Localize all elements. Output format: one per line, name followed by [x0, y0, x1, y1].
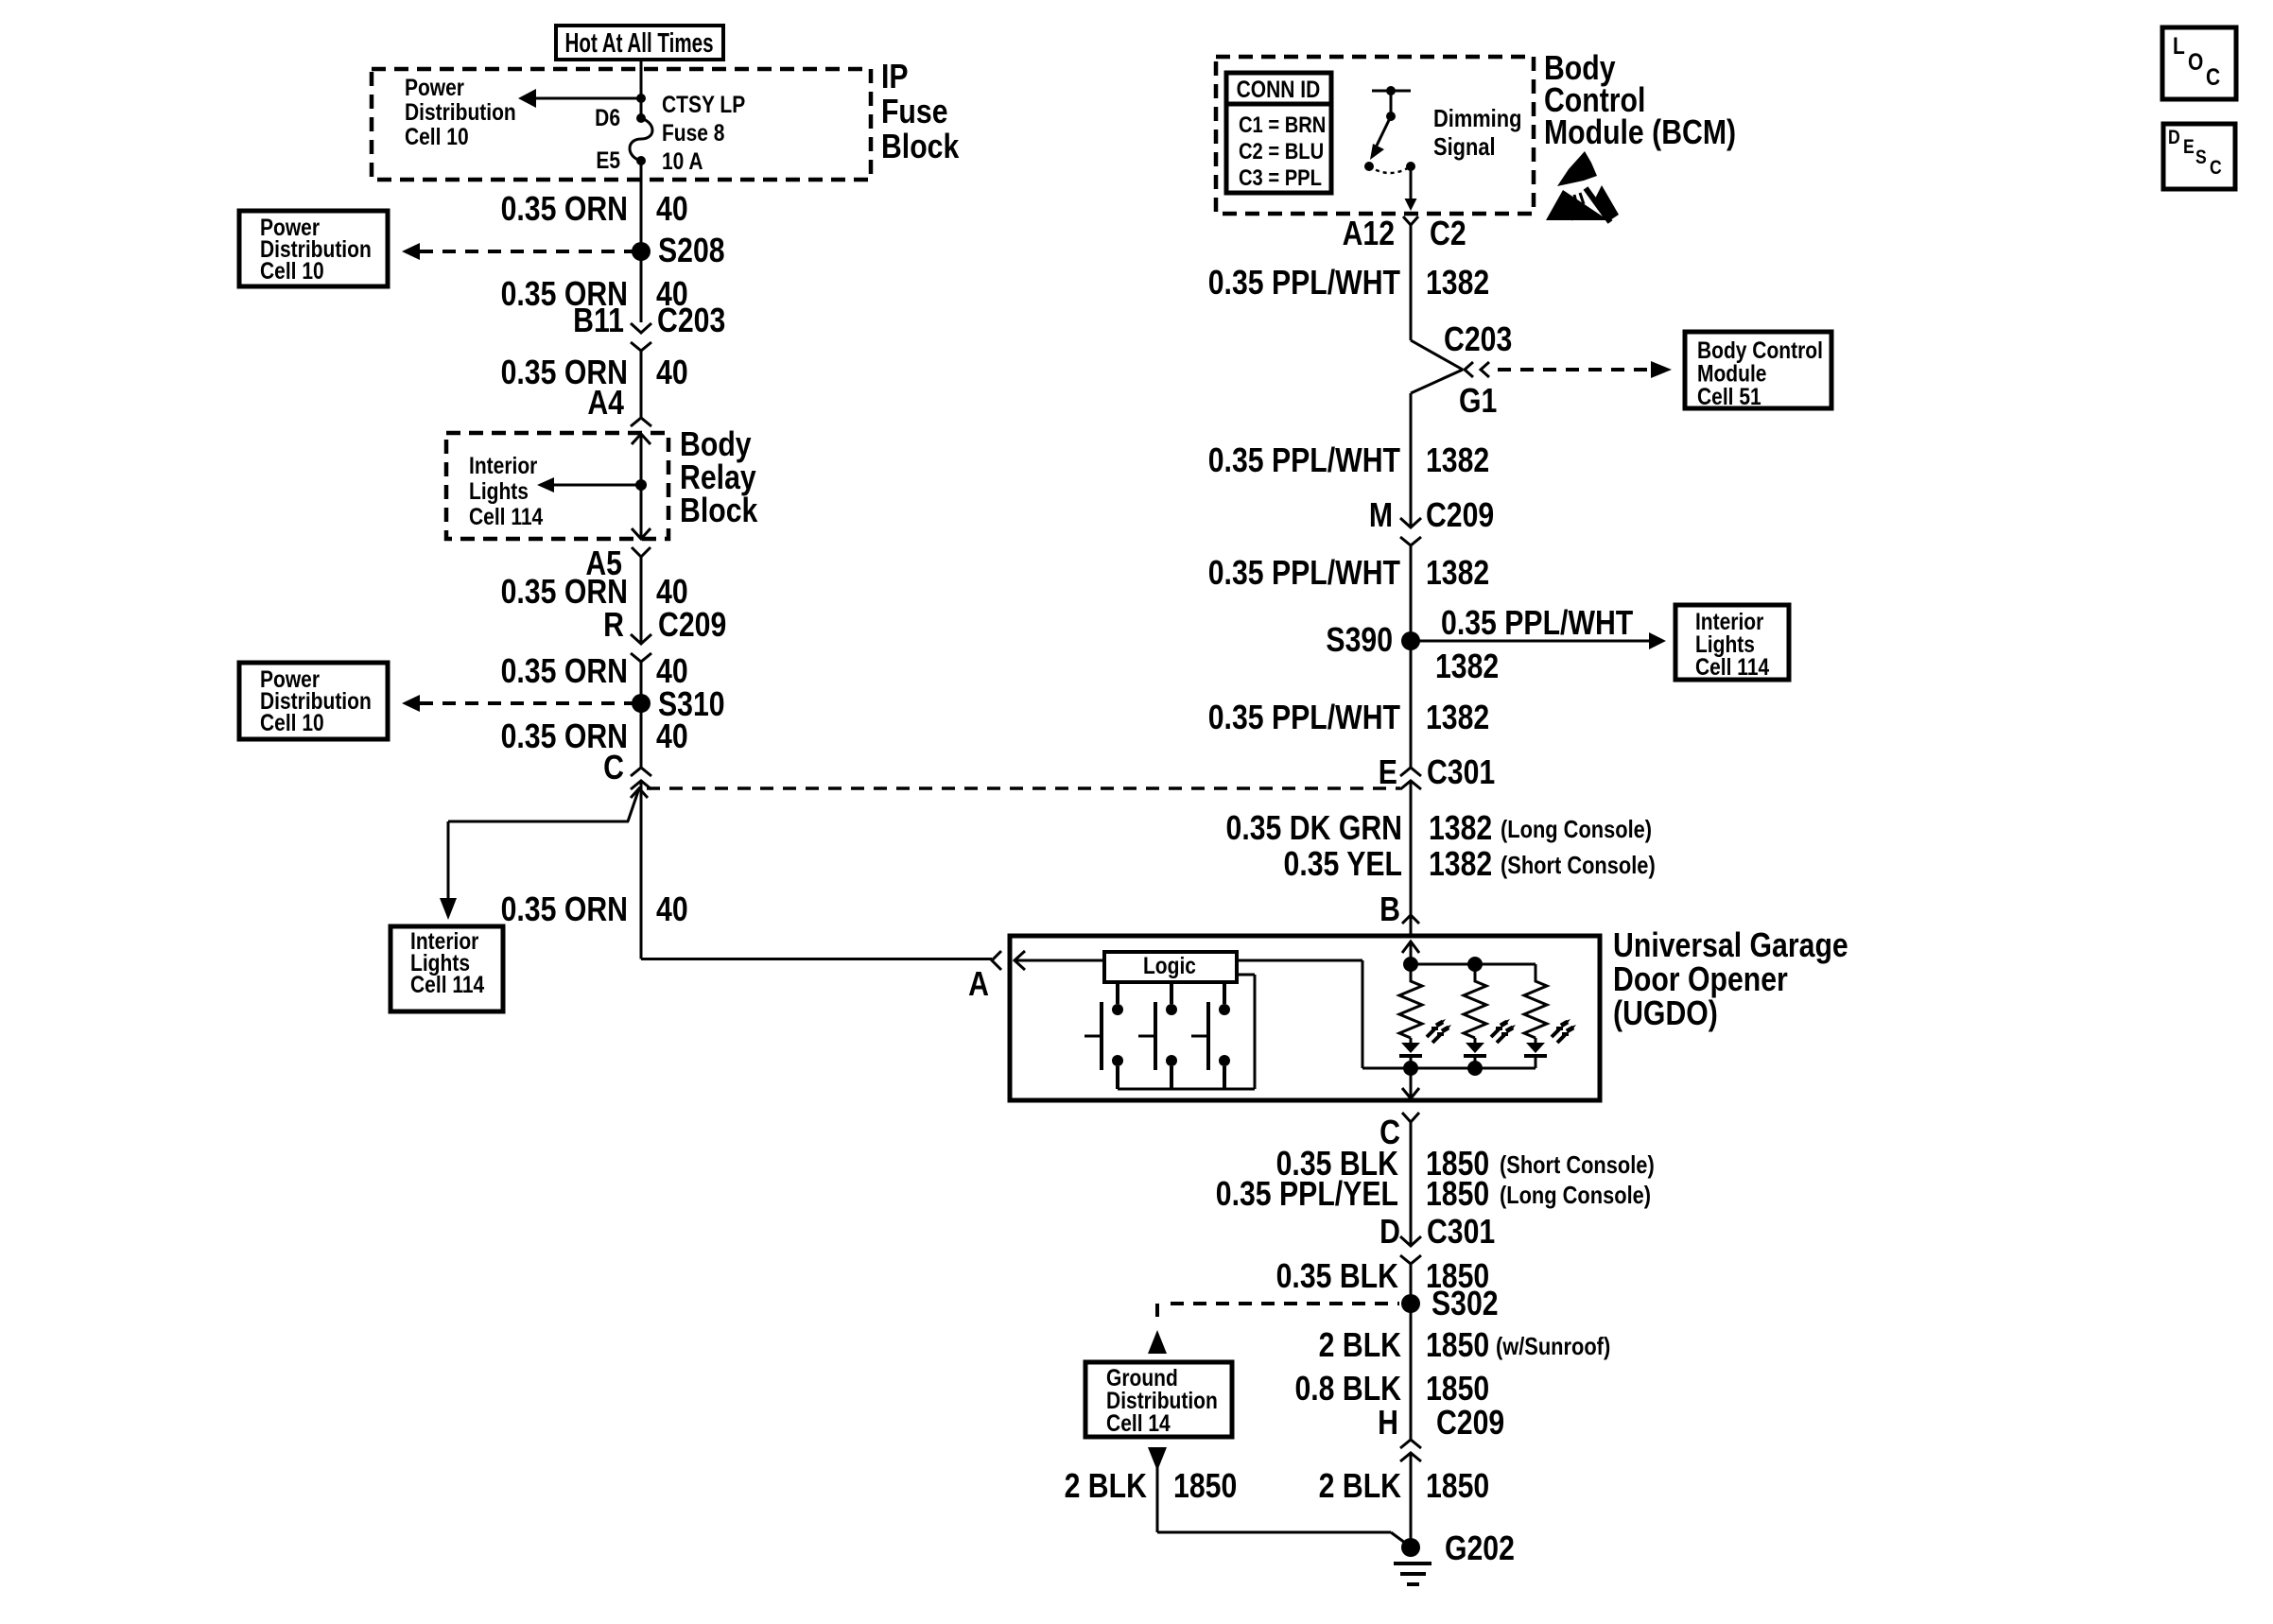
wire 0.35 ORN 40 segment (A5 to C209)	[640, 557, 643, 644]
IP Fuse Block (dashed box)	[372, 59, 960, 180]
wire UGDO ground exit with arrow	[1402, 1068, 1419, 1098]
svg-text:B: B	[1379, 891, 1400, 929]
svg-text:C301: C301	[1427, 1214, 1495, 1252]
wire 1850 segment (UGDO to C301)	[1410, 1122, 1413, 1246]
pushbutton switch SW2 (UGDO button)	[1138, 982, 1177, 1089]
node Interior Lights feed junction	[635, 479, 647, 491]
svg-text:G1: G1	[1459, 383, 1497, 421]
arrow S390 to Interior Lights Cell 114	[1411, 632, 1666, 649]
svg-text:(Long Console): (Long Console)	[1500, 1182, 1651, 1209]
svg-text:Cell 114: Cell 114	[410, 971, 484, 997]
svg-text:C3 = PPL: C3 = PPL	[1239, 164, 1322, 190]
svg-text:Fuse 8: Fuse 8	[662, 119, 725, 146]
svg-text:1382: 1382	[1429, 810, 1492, 848]
svg-text:D6: D6	[595, 104, 620, 130]
wire LED bottom bus	[1362, 1067, 1536, 1070]
wire 0.35 ORN 40 segment (fuse to C203)	[640, 161, 643, 322]
svg-text:S: S	[2195, 147, 2207, 169]
connector C209 (right, in-line)	[1400, 518, 1421, 545]
wire 0.35 BLK 1850 (C301 to C209)	[1410, 1264, 1413, 1440]
svg-text:1850: 1850	[1173, 1468, 1237, 1506]
svg-text:E: E	[2183, 136, 2195, 159]
wire 0.35 PPL/WHT 1382 (BCM to C203)	[1410, 224, 1413, 340]
svg-text:0.35 PPL/WHT: 0.35 PPL/WHT	[1208, 555, 1400, 593]
wire arrow to Interior Lights Cell 114 (in relay block)	[537, 477, 641, 492]
svg-text:1382: 1382	[1426, 442, 1489, 480]
svg-text:A4: A4	[587, 385, 624, 423]
Body Control Module BCM (dashed box)	[1216, 50, 1736, 214]
svg-text:Door Opener: Door Opener	[1613, 961, 1788, 999]
svg-text:0.35 BLK: 0.35 BLK	[1276, 1258, 1398, 1296]
svg-text:C203: C203	[657, 302, 725, 340]
svg-text:2 BLK: 2 BLK	[1319, 1327, 1401, 1365]
wire Ground box to G202	[1148, 1447, 1409, 1546]
wire branch arrow into connector C	[440, 788, 648, 920]
connector A5 below relay block	[632, 547, 651, 557]
svg-text:(Long Console): (Long Console)	[1501, 816, 1652, 843]
wire Logic to switch common	[1118, 975, 1255, 1089]
svg-text:2 BLK: 2 BLK	[1065, 1468, 1147, 1506]
splice S302	[1401, 1294, 1420, 1313]
svg-text:S390: S390	[1326, 622, 1393, 660]
svg-text:40: 40	[656, 354, 688, 392]
wire inside body relay block	[640, 434, 643, 539]
splice S390	[1401, 631, 1420, 650]
svg-text:Module (BCM): Module (BCM)	[1544, 114, 1736, 152]
dashed link C301 left to right	[647, 786, 1400, 790]
wire battery feed into IP fuse block	[640, 60, 643, 118]
svg-text:Cell 114: Cell 114	[1695, 653, 1769, 680]
svg-text:0.35 PPL/WHT: 0.35 PPL/WHT	[1208, 265, 1400, 302]
wire 0.35 PPL/WHT 1382 (C209 to C301)	[1410, 545, 1413, 768]
wire 1382 segment (C301 to UGDO pin B)	[1410, 781, 1413, 915]
dashed arrow S208 to Power Distribution Cell 10	[402, 243, 641, 260]
dashed branch S302 to Ground Distribution	[1148, 1304, 1399, 1354]
svg-text:(Short Console): (Short Console)	[1501, 852, 1656, 879]
svg-text:1382: 1382	[1426, 265, 1489, 302]
node Body Control Module Cell 51 (box)	[1685, 332, 1831, 409]
dashed arrow to Body Control Module Cell 51	[1498, 361, 1672, 378]
pin A entry arrow inside UGDO	[1015, 951, 1104, 970]
svg-text:40: 40	[656, 891, 688, 929]
connector C203 break (right)	[1411, 340, 1489, 393]
connector C203 (left, in-line)	[631, 323, 651, 351]
svg-text:0.35 PPL/WHT: 0.35 PPL/WHT	[1441, 605, 1633, 643]
svg-text:A12: A12	[1343, 216, 1395, 253]
svg-text:(Short Console): (Short Console)	[1500, 1151, 1655, 1179]
svg-text:0.35 DK GRN: 0.35 DK GRN	[1226, 810, 1402, 848]
svg-text:Hot At All Times: Hot At All Times	[565, 27, 714, 58]
connector B at UGDO	[1402, 915, 1419, 924]
svg-text:C2: C2	[1430, 216, 1466, 253]
svg-text:0.35 ORN: 0.35 ORN	[501, 891, 628, 929]
wire to UGDO pin A	[641, 958, 992, 960]
connector C209 (left, in-line)	[631, 634, 651, 662]
svg-text:2 BLK: 2 BLK	[1319, 1468, 1401, 1506]
svg-text:B11: B11	[573, 302, 624, 340]
svg-text:Interior: Interior	[469, 452, 537, 478]
svg-text:Cell 10: Cell 10	[260, 709, 324, 735]
node Interior Lights Cell 114 (label in relay block)	[469, 452, 543, 529]
DESC reference box	[2163, 124, 2235, 189]
svg-text:0.35 PPL/WHT: 0.35 PPL/WHT	[1208, 700, 1400, 737]
svg-text:Signal: Signal	[1433, 133, 1496, 161]
svg-text:E: E	[1379, 754, 1397, 792]
connector C301 (left half)	[631, 768, 651, 789]
pushbutton switch SW1 (UGDO button)	[1084, 982, 1123, 1089]
LED D3 emission arrows	[1552, 1019, 1576, 1043]
node Ground Distribution Cell 14 (box)	[1085, 1362, 1232, 1437]
svg-text:1850: 1850	[1426, 1327, 1489, 1365]
resistor R1 (UGDO indicator)	[1399, 964, 1422, 1038]
wire UGDO logic supply	[1237, 960, 1411, 1068]
connector A at UGDO	[992, 951, 1001, 970]
LED D1	[1399, 1038, 1422, 1068]
svg-text:IP: IP	[881, 59, 909, 96]
svg-text:C: C	[2210, 157, 2222, 180]
svg-text:10 A: 10 A	[662, 147, 703, 174]
wire 0.35 PPL/WHT 1382 (C203 to C209)	[1410, 393, 1413, 527]
pin B entry arrow inside UGDO	[1402, 942, 1419, 953]
component block Logic	[1104, 952, 1237, 982]
node Power Distribution Cell 10 (box, upper left)	[239, 211, 388, 286]
svg-text:Cell 114: Cell 114	[469, 503, 543, 529]
svg-text:C209: C209	[658, 607, 726, 645]
svg-text:C: C	[603, 750, 624, 787]
connector A4 at Body Relay Block	[631, 418, 651, 426]
svg-text:M: M	[1369, 497, 1393, 535]
svg-text:0.35 ORN: 0.35 ORN	[501, 653, 628, 691]
svg-text:0.35 ORN: 0.35 ORN	[501, 191, 628, 229]
svg-text:(UGDO): (UGDO)	[1613, 995, 1718, 1033]
node Hot At All Times	[556, 26, 723, 60]
pin A5 exit arrow at relay block edge	[632, 528, 651, 539]
splice S208	[632, 242, 651, 261]
svg-text:0.8 BLK: 0.8 BLK	[1294, 1371, 1401, 1408]
connector pin exit BCM	[1403, 216, 1418, 225]
svg-text:40: 40	[656, 191, 688, 229]
wire 0.35 ORN 40 segment (C to UGDO pin A)	[640, 781, 643, 959]
connector C at UGDO exit	[1402, 1113, 1419, 1122]
svg-text:E5: E5	[596, 147, 620, 173]
svg-text:O: O	[2188, 48, 2203, 75]
fuse F8 CTSY LP 10A	[630, 113, 652, 165]
svg-text:Cell 51: Cell 51	[1697, 383, 1761, 409]
wire 0.35 ORN 40 segment (C203 to body relay block)	[640, 351, 643, 418]
svg-text:C1 = BRN: C1 = BRN	[1239, 112, 1326, 137]
LED D1 emission arrows	[1427, 1019, 1451, 1043]
fuse value label CTSY LP Fuse 8 10 A	[662, 91, 745, 174]
Universal Garage Door Opener UGDO (box)	[1010, 927, 1848, 1100]
svg-text:Universal Garage: Universal Garage	[1613, 927, 1848, 965]
node Power Distribution Cell 10 (label in fuse block)	[405, 74, 516, 149]
svg-text:Logic: Logic	[1143, 952, 1196, 978]
wire 2 BLK 1850 to G202	[1410, 1453, 1413, 1547]
svg-text:1382: 1382	[1426, 700, 1489, 737]
connector C301 (lower, in-line)	[1400, 1236, 1421, 1264]
svg-text:C: C	[2206, 63, 2220, 90]
svg-text:CONN ID: CONN ID	[1237, 76, 1321, 102]
svg-text:CTSY LP: CTSY LP	[662, 91, 745, 117]
svg-text:1382: 1382	[1429, 846, 1492, 884]
svg-text:S208: S208	[658, 233, 725, 270]
svg-text:Dimming: Dimming	[1433, 105, 1521, 132]
svg-text:Cell 10: Cell 10	[260, 257, 324, 284]
svg-text:1850: 1850	[1426, 1371, 1489, 1408]
wire 0.35 ORN 40 segment (C209 to C301)	[640, 662, 643, 768]
LED D3	[1524, 1038, 1547, 1068]
svg-text:Fuse: Fuse	[881, 94, 948, 131]
dashed arrow S310 to Power Distribution Cell 10	[402, 695, 641, 712]
svg-text:40: 40	[656, 718, 688, 756]
svg-text:C2 = BLU: C2 = BLU	[1239, 138, 1324, 164]
svg-text:(w/Sunroof): (w/Sunroof)	[1496, 1333, 1610, 1360]
svg-text:Cell 14: Cell 14	[1106, 1409, 1171, 1436]
wire LED top bus	[1411, 963, 1536, 966]
svg-text:G202: G202	[1445, 1530, 1515, 1568]
junction dots on buses	[1403, 957, 1483, 1076]
svg-text:D: D	[1379, 1214, 1400, 1252]
svg-text:1850: 1850	[1426, 1468, 1489, 1506]
svg-text:Power: Power	[405, 74, 464, 100]
svg-text:Block: Block	[881, 129, 960, 166]
svg-text:C209: C209	[1436, 1405, 1504, 1443]
svg-text:1382: 1382	[1435, 648, 1499, 686]
resistor R2 (UGDO indicator)	[1464, 964, 1486, 1038]
svg-text:0.35 PPL/YEL: 0.35 PPL/YEL	[1216, 1176, 1398, 1214]
svg-text:Block: Block	[680, 492, 758, 530]
svg-text:Distribution: Distribution	[405, 98, 516, 125]
svg-text:Lights: Lights	[469, 477, 529, 504]
CONN ID table	[1226, 73, 1331, 193]
node Interior Lights Cell 114 (box, right)	[1675, 605, 1789, 680]
pushbutton switch SW3 (UGDO button)	[1191, 982, 1230, 1089]
svg-text:0.35 YEL: 0.35 YEL	[1284, 846, 1402, 884]
svg-text:Cell 10: Cell 10	[405, 123, 469, 149]
svg-text:L: L	[2173, 32, 2185, 59]
LED D2 emission arrows	[1491, 1019, 1516, 1043]
connector C209 (bottom, in-line)	[1400, 1440, 1421, 1461]
svg-text:S302: S302	[1431, 1286, 1499, 1323]
svg-text:1382: 1382	[1426, 555, 1489, 593]
ground G202	[1394, 1538, 1431, 1584]
connector C301 (right half)	[1400, 768, 1421, 789]
wire arrow to Power Distribution Cell 10 (top label)	[518, 89, 641, 108]
Body Relay Block (dashed box)	[446, 426, 758, 539]
svg-text:1850: 1850	[1426, 1176, 1489, 1214]
svg-text:H: H	[1378, 1405, 1398, 1443]
svg-text:R: R	[603, 607, 624, 645]
resistor R3 (UGDO indicator)	[1524, 964, 1547, 1038]
svg-text:0.35 PPL/WHT: 0.35 PPL/WHT	[1208, 442, 1400, 480]
pin A4 entry arrow inside relay block	[632, 434, 651, 444]
dimming signal rheostat (switch)	[1364, 86, 1417, 211]
splice S310	[632, 694, 651, 713]
LOC reference box	[2162, 27, 2236, 99]
LED D2	[1464, 1038, 1486, 1068]
node Power Distribution Cell 10 (box, lower left)	[239, 663, 388, 739]
svg-text:C209: C209	[1426, 497, 1494, 535]
svg-text:C301: C301	[1427, 754, 1495, 792]
svg-text:C203: C203	[1444, 321, 1512, 359]
node B+ junction in fuse block	[636, 94, 646, 103]
svg-text:D: D	[2168, 127, 2180, 149]
ESD sensitivity symbol	[1546, 151, 1619, 222]
svg-text:A: A	[968, 966, 989, 1004]
node Interior Lights Cell 114 (box, bottom left)	[390, 926, 503, 1011]
